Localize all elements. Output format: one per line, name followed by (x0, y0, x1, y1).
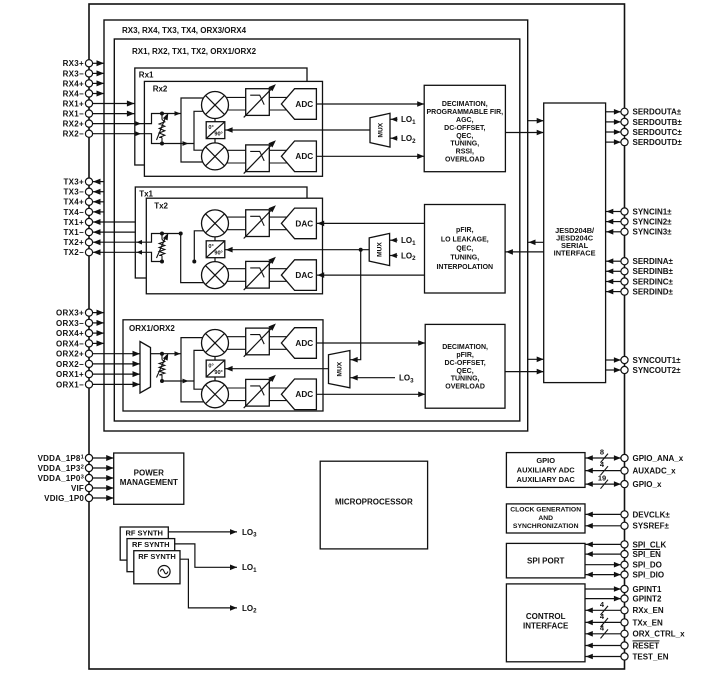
wire pin ORX4+ into group box (93, 330, 104, 336)
label RX2+ (63, 120, 84, 129)
pin TX1- (85, 229, 92, 236)
wire Tx2 Q DAC to mixer diff pair (215, 269, 289, 282)
label SYNCOUT2 (633, 366, 682, 375)
label ORX2- (56, 360, 84, 369)
svg-text:DC-OFFSET,: DC-OFFSET, (444, 125, 485, 132)
group box RX1,RX2,TX1,TX2,ORX1/ORX2 (114, 39, 520, 421)
wire ORX Q mixer to ADC diff pair (215, 388, 289, 401)
wire TX2- output jog from resistor bottom node (93, 249, 162, 261)
wire ORX selector output to resistor top node (151, 353, 163, 355)
svg-text:19: 19 (598, 474, 606, 483)
wire pin VDDA_1P3 into power management (93, 465, 114, 471)
pin GPINT1 (621, 585, 628, 592)
wire pin ORX2&#8722; into ORX selector (93, 361, 140, 367)
wire TX2+ output jog from resistor top node (93, 234, 162, 246)
phase splitter 0/90 (Rx2) (206, 122, 225, 139)
svg-text:SYNCIN2±: SYNCIN2± (633, 218, 673, 227)
label RX1, RX2, TX1, TX2, ORX1/ORX2 (132, 47, 257, 56)
pin TX3- (85, 188, 92, 195)
filter ORX I (tunable LPF) (244, 324, 276, 357)
block MICROPROCESSOR (320, 461, 427, 549)
label SPI_DO (633, 561, 662, 570)
wire TX1- from Tx1 to pin (93, 229, 136, 235)
svg-text:MICROPROCESSOR: MICROPROCESSOR (335, 497, 413, 506)
node Tx2 resistor top (160, 232, 164, 236)
pin TXx_EN (621, 619, 628, 626)
wire DEVCLK (585, 512, 621, 518)
svg-text:SERDOUTD±: SERDOUTD± (633, 138, 683, 147)
wire Rx2 I mixer to splitter stub (214, 118, 216, 123)
label LO2 (TX mux) (401, 251, 416, 262)
wire LO1 output (175, 544, 237, 570)
label TXx_EN (633, 618, 663, 627)
label LO3 (ORX mux) (399, 374, 414, 385)
wire ORX splitter to Q mixer stub (214, 377, 216, 381)
svg-text:ORX1+: ORX1+ (56, 370, 84, 379)
label ORX3- (56, 319, 84, 328)
svg-text:QEC,: QEC, (457, 368, 474, 375)
label SYNCIN1 (633, 207, 673, 216)
wire LO2 into TX mux (390, 253, 398, 258)
pin RX3+ (85, 60, 92, 67)
wire pin ORX4&#8722; into group box (93, 340, 104, 346)
box Tx1 (135, 187, 307, 278)
svg-text:SERDINC±: SERDINC± (633, 277, 674, 286)
mixer Rx2 Q (202, 143, 229, 170)
pin GPINT2 (621, 595, 628, 602)
pin ORX2- (85, 360, 92, 367)
wire Tx2 resistor top to outer bus node (162, 233, 181, 235)
wire Tx2 outer bus to Q mixer (181, 234, 212, 283)
DAC Tx2 Q (281, 260, 316, 291)
pin SYNCIN3 (621, 228, 628, 235)
svg-text:RX4+: RX4+ (63, 79, 84, 88)
label AUXADC_x (633, 467, 677, 476)
label SYNCIN3 (633, 228, 673, 237)
pin ORX1+ (85, 371, 92, 378)
svg-text:MUX: MUX (377, 242, 384, 257)
mixer Rx2 I (202, 92, 229, 119)
mux ORX LO (329, 351, 350, 388)
ADC Rx2 I (281, 89, 316, 120)
group box RX3,RX4,TX3,TX4,ORX3/ORX4 (104, 20, 528, 431)
svg-text:CONTROL: CONTROL (526, 612, 566, 621)
svg-text:ORX1−: ORX1− (56, 380, 84, 389)
pin SERDOUTA (621, 108, 628, 115)
DAC Tx2 I (281, 208, 316, 239)
pin SYSREF (621, 522, 628, 529)
wire ORX I mixer to splitter stub (214, 357, 216, 361)
node Rx2 resistor bottom (160, 142, 164, 146)
block CLOCK GENERATION AND SYNCHRONIZATION (506, 504, 585, 533)
svg-text:MUX: MUX (377, 122, 384, 137)
wire pin RX1+ into Rx1 (93, 101, 135, 107)
resistor ORX variable attenuator (157, 353, 169, 381)
label SYNCIN2 (633, 218, 673, 227)
wire LO3 into ORX mux (350, 375, 395, 381)
svg-text:DECIMATION,: DECIMATION, (442, 344, 488, 351)
svg-text:RX3, RX4, TX3, TX4, ORX3/ORX4: RX3, RX4, TX3, TX4, ORX3/ORX4 (122, 26, 247, 35)
label LO2 (242, 604, 257, 615)
pin SPI_CLK (621, 541, 628, 548)
wire TXx_EN (585, 612, 621, 627)
wire ORX I mixer to ADC diff pair (215, 337, 289, 350)
pin SYNCOUT1 (621, 356, 628, 363)
mixer Tx2 Q (202, 262, 229, 289)
ADC ORX Q (281, 379, 316, 410)
wire ORX resistor top to outer bus (162, 351, 181, 356)
label ORX3+ (56, 309, 84, 318)
wire pin RX1- into Rx1 (93, 111, 135, 117)
svg-text:RX2+: RX2+ (63, 120, 84, 129)
svg-text:90°: 90° (214, 132, 222, 138)
phase splitter 0/90 (Tx2) (206, 241, 225, 258)
wire Rx2 Q mixer to ADC diff pair (215, 150, 289, 163)
pin VDDA_1P0 (85, 474, 92, 481)
mux RX LO (U-MUX) (370, 113, 390, 147)
pin SERDOUTB (621, 118, 628, 125)
label LO3 (242, 528, 257, 539)
pin VDDA_1P8 (85, 454, 92, 461)
svg-text:SYNCOUT1±: SYNCOUT1± (633, 356, 682, 365)
wire SERDIND (606, 289, 621, 295)
wire ORX outer RF bus (181, 338, 212, 402)
pin SERDOUTC (621, 128, 628, 135)
wire resistor top node to outer bus (162, 111, 181, 116)
wire Rx2 inner RF bus (194, 111, 206, 150)
svg-text:DC-OFFSET,: DC-OFFSET, (444, 360, 485, 367)
mixer ORX I (202, 330, 229, 357)
wire Tx2 splitter to Q mixer stub (214, 257, 216, 262)
wire SERDINA (606, 258, 621, 264)
wire pin VDIG_1P0 into power management (93, 495, 114, 501)
svg-text:ORX1/ORX2: ORX1/ORX2 (129, 324, 175, 333)
svg-text:DEVCLK±: DEVCLK± (633, 510, 671, 519)
svg-text:ORX4−: ORX4− (56, 339, 84, 348)
pin ORX3- (85, 319, 92, 326)
svg-text:ORX_CTRL_x: ORX_CTRL_x (633, 630, 686, 639)
svg-text:DAC: DAC (295, 271, 313, 280)
label RX4+ (63, 79, 84, 88)
label GPINT1 (633, 585, 662, 594)
svg-text:DECIMATION,: DECIMATION, (442, 101, 488, 108)
label LO2 (RX mux) (401, 134, 416, 145)
label SERDINC (633, 277, 674, 286)
label LO1 (RX mux) (401, 115, 416, 126)
pin RXx_EN (621, 607, 628, 614)
label ORX1/ORX2 (129, 324, 175, 333)
svg-text:Rx1: Rx1 (139, 71, 154, 80)
svg-text:RXx_EN: RXx_EN (633, 606, 664, 615)
wire Tx2 I mixer to splitter stub (214, 237, 216, 241)
wire pin RX3+ into group box (93, 60, 104, 66)
svg-text:Rx2: Rx2 (153, 85, 168, 94)
pin RX2- (85, 130, 92, 137)
svg-text:RF SYNTH: RF SYNTH (132, 540, 170, 549)
wire pin ORX2+ into ORX selector (93, 351, 140, 357)
svg-text:SERDINB±: SERDINB± (633, 267, 674, 276)
label TX4+ (63, 198, 84, 207)
label ORX_CTRL_x (633, 630, 686, 639)
wire SPI_DO (585, 562, 621, 568)
svg-text:Tx2: Tx2 (154, 201, 168, 210)
svg-text:ORX3+: ORX3+ (56, 309, 84, 318)
svg-text:TEST_EN: TEST_EN (633, 652, 669, 661)
svg-text:GPINT2: GPINT2 (633, 595, 662, 604)
svg-text:CLOCK GENERATION: CLOCK GENERATION (510, 507, 581, 514)
pin ORX4+ (85, 330, 92, 337)
svg-text:INTERFACE: INTERFACE (523, 622, 569, 631)
svg-text:VDDA_1P32: VDDA_1P32 (38, 464, 84, 473)
label LO1 (TX mux) (401, 236, 416, 247)
wire pin ORX3&#8722; into group box (93, 320, 104, 326)
svg-text:QEC,: QEC, (456, 246, 473, 253)
wire SERDINB (606, 269, 621, 275)
wire Rx2 splitter to Q mixer stub (214, 138, 216, 144)
label ORX4- (56, 339, 84, 348)
wire pin RX3&#8722; into group box (93, 70, 104, 76)
label ORX2+ (56, 350, 84, 359)
svg-text:0°: 0° (208, 363, 213, 369)
wire SERDOUTC (606, 129, 621, 135)
node Tx2 resistor bottom (160, 260, 164, 264)
svg-text:QEC,: QEC, (456, 133, 473, 140)
pin RESET (621, 642, 628, 649)
svg-text:TX3−: TX3− (63, 188, 84, 197)
label LO1 (242, 563, 257, 574)
wire RX2+ input jog to resistor top node (93, 114, 162, 126)
label RX3- (63, 69, 84, 78)
label VIF (71, 484, 84, 493)
svg-text:DAC: DAC (295, 219, 313, 228)
label GPINT2 (633, 595, 662, 604)
svg-text:SPI PORT: SPI PORT (527, 557, 564, 566)
pin ORX3+ (85, 309, 92, 316)
svg-text:LO LEAKAGE,: LO LEAKAGE, (441, 236, 489, 243)
wire SERDOUTA (606, 109, 621, 115)
pin GPIO_x (621, 481, 628, 488)
label SERDOUTA (633, 108, 682, 117)
wire LO mux to ORX 0/90 splitter (225, 366, 329, 372)
node Tx2 inner bus bottom (192, 260, 196, 264)
pin TX4+ (85, 198, 92, 205)
svg-text:ADC: ADC (295, 152, 313, 161)
svg-text:VDDA_1P03: VDDA_1P03 (38, 474, 85, 483)
wire Rx2 I mixer to ADC diff pair (215, 97, 289, 110)
filter Rx2 Q (tunable LPF) (244, 140, 276, 173)
svg-text:PROGRAMMABLE FIR,: PROGRAMMABLE FIR, (426, 109, 503, 116)
svg-text:TX1+: TX1+ (63, 218, 84, 227)
label GPIO_ANA_x (633, 454, 684, 463)
pin DEVCLK (621, 511, 628, 518)
label SERDIND (633, 288, 674, 297)
pin AUXADC_x (621, 467, 628, 474)
svg-text:8: 8 (600, 448, 604, 457)
wire ORX ADC Q to decimation block (316, 392, 425, 398)
svg-text:RX4−: RX4− (63, 89, 84, 98)
label Tx2 (154, 201, 168, 210)
wire JESD to TX group box (528, 240, 544, 246)
pin SERDINA (621, 258, 628, 265)
pin TEST_EN (621, 653, 628, 660)
svg-text:SERDIND±: SERDIND± (633, 288, 674, 297)
label SERDINB (633, 267, 674, 276)
pin ORX_CTRL_x (621, 630, 628, 637)
wire SYNCIN1 (606, 209, 621, 215)
svg-text:SPI_CLK: SPI_CLK (633, 540, 667, 549)
wire pFIR block to DAC I (316, 221, 424, 227)
label SERDOUTB (633, 118, 683, 127)
pin SERDIND (621, 288, 628, 295)
block TX pFIR/LO LEAKAGE (425, 205, 506, 294)
wire GPIO_ANA_x (585, 448, 621, 463)
pin VDIG_1P0 (85, 494, 92, 501)
filter ORX Q (tunable LPF) (244, 375, 276, 408)
svg-text:ORX2+: ORX2+ (56, 350, 84, 359)
pin SERDINC (621, 278, 628, 285)
svg-text:POWER: POWER (134, 469, 164, 478)
svg-text:ORX2−: ORX2− (56, 360, 84, 369)
svg-text:GPIO: GPIO (536, 456, 555, 465)
phase splitter 0/90 (ORX) (206, 360, 225, 377)
label Rx1 (139, 71, 154, 80)
mixer ORX Q (202, 381, 229, 408)
wire RXx_EN (585, 600, 621, 615)
pin SPI_DIO (621, 571, 628, 578)
wire ORX group box to JESD (528, 357, 544, 363)
label TX3- (63, 188, 84, 197)
svg-text:SPI_DO: SPI_DO (633, 561, 662, 570)
label VDDA_1P3 (38, 464, 84, 473)
box ORX1/ORX2 (123, 320, 323, 411)
label SYNCOUT1 (633, 356, 682, 365)
box Rx1 (135, 68, 307, 165)
pin SYNCIN1 (621, 208, 628, 215)
resistor Rx2 variable attenuator (157, 113, 169, 144)
pin SERDOUTD (621, 139, 628, 146)
label TX4- (63, 208, 84, 217)
block SPI PORT (506, 543, 585, 578)
svg-text:90°: 90° (214, 251, 222, 257)
wire TX4&#8722; from group box to pin (93, 209, 104, 215)
label TEST_EN (633, 652, 669, 661)
wire TX1+ from Tx1 to pin (93, 219, 136, 225)
pin RX3- (85, 70, 92, 77)
pin VIF (85, 484, 92, 491)
ADC Rx2 Q (281, 141, 316, 172)
svg-text:MANAGEMENT: MANAGEMENT (120, 478, 178, 487)
svg-text:TUNING,: TUNING, (450, 141, 479, 148)
wire TEST_EN (585, 654, 621, 660)
block RF SYNTH (LO2) (134, 551, 180, 584)
label SPI_CLK (633, 540, 667, 549)
svg-text:AGC,: AGC, (456, 117, 474, 124)
block RX DECIMATION/PROGRAMMABLE FIR (424, 85, 505, 171)
wire SPI_DIO (585, 572, 621, 578)
wire SYNCIN2 (606, 219, 621, 225)
pin RX2+ (85, 120, 92, 127)
svg-text:SYNCOUT2±: SYNCOUT2± (633, 366, 682, 375)
svg-text:TX3+: TX3+ (63, 178, 84, 187)
svg-text:AUXADC_x: AUXADC_x (633, 467, 677, 476)
wire pin VDDA_1P0 into power management (93, 475, 114, 481)
wire SERDINC (606, 279, 621, 285)
pin SERDINB (621, 268, 628, 275)
block JESD204B/JESD204C SERIAL INTERFACE (544, 103, 606, 383)
svg-text:ADC: ADC (295, 339, 313, 348)
pin SPI_DO (621, 561, 628, 568)
wire GPIO_x (585, 474, 621, 489)
label Rx2 (153, 85, 168, 94)
pin TX4- (85, 208, 92, 215)
label TX2+ (63, 238, 84, 247)
label RX2- (63, 130, 84, 139)
box Rx2 (144, 81, 322, 176)
pin TX1+ (85, 218, 92, 225)
wire TX3&#8722; from group box to pin (93, 189, 104, 195)
mixer Tx2 I (202, 210, 229, 237)
wire resistor bottom node to inner bus (162, 141, 194, 146)
label SERDOUTD (633, 138, 683, 147)
svg-text:SYNCIN1±: SYNCIN1± (633, 207, 673, 216)
wire Tx2 I DAC to mixer diff pair (215, 217, 289, 230)
svg-text:RSSI,: RSSI, (456, 149, 474, 156)
label TX1- (63, 228, 84, 237)
wire ORX decimation block to JESD (505, 369, 544, 375)
wire ORX ADC I to decimation block (316, 340, 425, 346)
wire JESD to pFIR block (505, 249, 544, 255)
pin SYNCIN2 (621, 218, 628, 225)
label ORX4+ (56, 329, 84, 338)
block CONTROL INTERFACE (506, 584, 585, 662)
block POWER MANAGEMENT (114, 453, 184, 504)
box Tx2 (146, 198, 322, 294)
svg-text:RX1+: RX1+ (63, 99, 84, 108)
wire LO3 output (168, 529, 237, 535)
label RX3+ (63, 59, 84, 68)
pin RX4- (85, 90, 92, 97)
svg-text:TX2−: TX2− (63, 248, 84, 257)
svg-text:VDIG_1P0: VDIG_1P0 (44, 494, 84, 503)
svg-text:SERDOUTA±: SERDOUTA± (633, 108, 682, 117)
wire GPINT1 (585, 586, 621, 592)
svg-text:AND: AND (538, 515, 553, 522)
svg-text:MUX: MUX (337, 361, 344, 376)
svg-text:RX1−: RX1− (63, 110, 84, 119)
label TX3+ (63, 178, 84, 187)
wire GPINT2 (585, 596, 621, 602)
svg-text:SYNCHRONIZATION: SYNCHRONIZATION (513, 523, 579, 530)
label RX1+ (63, 99, 84, 108)
svg-text:OVERLOAD: OVERLOAD (445, 157, 485, 164)
filter Rx2 I (tunable LPF) (244, 84, 276, 117)
wire pin VDDA_1P8 into power management (93, 455, 114, 461)
wire pin ORX1+ into ORX selector (93, 371, 140, 377)
svg-text:pFIR,: pFIR, (456, 352, 474, 359)
pin ORX1- (85, 381, 92, 388)
wire SERDOUTD (606, 139, 621, 145)
svg-text:SERDOUTC±: SERDOUTC± (633, 128, 683, 137)
label RX4- (63, 89, 84, 98)
wire LO mux to Rx2 0/90 splitter (225, 127, 370, 133)
label RXx_EN (633, 606, 664, 615)
svg-text:0°: 0° (208, 244, 213, 250)
svg-text:SERDOUTB±: SERDOUTB± (633, 118, 683, 127)
wire ADC Q to decimation block (316, 154, 424, 160)
label ORX1- (56, 380, 84, 389)
label SERDINA (633, 257, 674, 266)
pin SYNCOUT2 (621, 366, 628, 373)
